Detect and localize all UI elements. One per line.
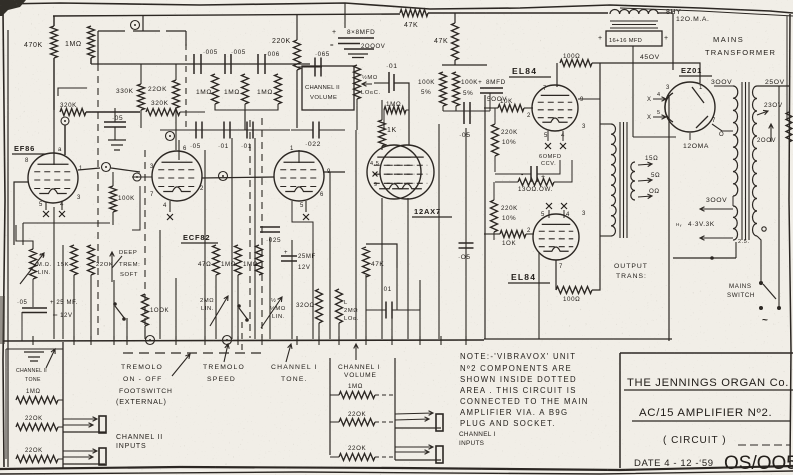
resistor 15K [71, 245, 78, 275]
pin 9 V3 [327, 169, 331, 175]
border left edge [3, 12, 5, 467]
mains transformer core [742, 82, 749, 240]
resistor 47K rail [400, 10, 428, 17]
wire EF86 pin5 lead [45, 202, 47, 210]
wire bus tick 16 [465, 336, 467, 345]
pin 3 ECF82 [150, 164, 154, 170]
wire 100R bottom to transformer [592, 235, 600, 290]
label 200V [757, 138, 776, 144]
label plus 25MF [50, 300, 78, 306]
label 220K cluster [148, 86, 167, 93]
wire 220K chIa left [330, 421, 339, 423]
wire vertical drop 26 [438, 124, 440, 339]
label AC tilde [762, 315, 768, 326]
pin 1 EF86 [79, 166, 83, 172]
output transformer secondary coil [631, 162, 635, 200]
wire 220K top lead [175, 64, 177, 80]
resistor 47K dropper [452, 23, 459, 60]
label EL84 top underline [509, 76, 551, 78]
label .05 screen cap [112, 115, 123, 122]
label 8HY [666, 9, 681, 16]
label .065 [315, 51, 330, 58]
label plus compo [541, 174, 546, 181]
label 1M chI [348, 383, 363, 390]
label 250V [765, 79, 785, 86]
wire vertical drop 2 [73, 275, 75, 339]
wire vertical drop 19 [338, 323, 340, 339]
wire main earth bus [3, 340, 484, 341]
wire ECF82 top lead [178, 140, 180, 160]
label .05 lower [458, 254, 471, 261]
resistor 220K channel I a [339, 419, 375, 426]
label 5 percent b [463, 90, 473, 97]
capacitor .05 coupling lower [459, 243, 474, 248]
wire output box bottom [484, 338, 672, 340]
wire 130R left [495, 181, 518, 183]
pin 4 EL84 top [561, 133, 565, 139]
label MAINS [713, 35, 744, 44]
resistor 220K coupling cluster [173, 80, 180, 108]
label .005 second [231, 49, 246, 56]
wire choke right to EZ01 [658, 12, 673, 14]
capacitor 8+8MFD plates [338, 38, 374, 49]
ground screen decoupler [108, 140, 126, 150]
jack channel I input 1 [436, 414, 443, 431]
wire chI volume left [329, 358, 331, 455]
wire dashed link down [241, 322, 243, 352]
wire cap box drop [632, 46, 634, 137]
wire EF86 cathode left [14, 182, 28, 245]
wire bus tick 7 [237, 336, 239, 345]
wire EL84 bottom pin5 [548, 210, 550, 218]
wire dashed vibravox inner b [249, 120, 251, 338]
label 120MA [676, 16, 710, 23]
wire 1M bottoms join [215, 104, 278, 110]
label TONE chI [281, 376, 308, 383]
wire 220K bottom [175, 108, 177, 150]
label half meg lin 1 [40, 252, 45, 259]
mains heater winding [733, 206, 738, 240]
speaker tap 5 ohm [638, 178, 652, 183]
pin 45 12AX7 [370, 161, 379, 167]
wire 220K a right [58, 426, 63, 428]
label .01 top [386, 63, 398, 70]
resistor 47K channel I [363, 247, 370, 277]
wire EL84 top pin9 to rail [578, 98, 600, 100]
wire 1M chI right dashes [375, 394, 395, 396]
label 320K [60, 102, 77, 109]
wire grid feed left [374, 82, 389, 84]
wire jog horizontal [98, 30, 186, 32]
wire .022 right [319, 129, 345, 131]
wire EF86 anode top lead [53, 135, 55, 165]
node D on rail [131, 21, 140, 30]
label SWITCH [727, 292, 755, 299]
wire EZ01 bottom drop [689, 133, 691, 140]
wire coupling row [91, 63, 310, 65]
wire 100K top lead [112, 172, 114, 186]
wire 10K bottom left [484, 233, 500, 235]
capacitor .05 tremolo plates [22, 308, 47, 313]
label 230V [764, 102, 783, 109]
label TONE small [25, 377, 41, 383]
title AC15 [639, 407, 772, 419]
resistor 130R cathode [518, 179, 554, 186]
label 25MF second [298, 254, 316, 260]
label 5 percent a [421, 89, 431, 96]
label 100K tremolo [150, 308, 169, 314]
wire 330K top lead [140, 64, 142, 84]
wire anode node to right [111, 168, 140, 172]
resistor 220K channel II a [16, 424, 58, 431]
label CHANNEL I vol [338, 364, 380, 371]
label 1M grid b [224, 89, 240, 96]
pin 5 EL84 top [544, 133, 548, 139]
label half-meg pot [362, 74, 378, 81]
wire .05 lower up [465, 230, 467, 243]
resistor 10K grid bottom [500, 231, 526, 238]
wire vertical drop 8 [175, 278, 177, 339]
wire transformer secondary top [714, 85, 733, 87]
label FOOTSWITCH [119, 388, 173, 395]
wire jog right drop [185, 31, 187, 46]
label 15 ohm [645, 155, 658, 162]
pointer footswitch [172, 354, 190, 376]
pin labels 12AX7 right [374, 182, 378, 188]
resistor 470K [51, 26, 58, 58]
label 220K chII a [25, 416, 43, 422]
label 2M log [344, 308, 358, 314]
resistor 1K [379, 120, 386, 146]
pointer channel I volume [354, 344, 359, 360]
pin 2 ECF82 [200, 186, 204, 192]
wire vertical drop 7 [159, 230, 161, 339]
wire B+ node phase [442, 64, 487, 66]
output transformer core [620, 122, 627, 238]
label 47K dropper [434, 38, 448, 45]
wire .065 right to box [302, 66, 322, 68]
pin 2 EL84 top [527, 113, 531, 119]
wire 47K dropper top [454, 13, 456, 23]
wire primary bottom to switch [757, 236, 761, 281]
label 8MFD [486, 79, 506, 86]
pin X5 EZ01 [647, 115, 652, 121]
capacitor .05 coupling [464, 102, 470, 124]
tube EL84 bottom [533, 214, 579, 260]
wire 320K right lead [86, 111, 140, 113]
label 100K plate a [418, 79, 435, 86]
wire V3 pin5 lead [305, 201, 307, 212]
wire EF86 bottom return [23, 222, 110, 224]
border left edge inner [7, 30, 9, 467]
label .01 row b [241, 143, 252, 150]
label plus right [664, 35, 669, 42]
label .05 row [190, 143, 201, 150]
wire pot1 top bracket [16, 225, 33, 249]
pin X4 EZ01 [647, 97, 652, 103]
label MQ LIN 1b [38, 270, 51, 276]
label 220K tremolo [96, 262, 113, 268]
switch mains arm [763, 284, 776, 299]
switch tremolo dots [113, 302, 126, 321]
wire .05 cap top lead [114, 108, 116, 122]
resistor dropper 250V [786, 112, 792, 142]
note text line 5 [460, 397, 589, 406]
wire chI volume right [394, 358, 396, 460]
capacitor .065 [315, 58, 321, 77]
pin 5 EF86 [39, 202, 43, 208]
label TREMOLO onoff [121, 364, 163, 371]
jack II-2 sleeve line [63, 463, 105, 465]
label 6.3V heater [688, 221, 715, 228]
label 10pc bottom [502, 215, 516, 222]
resistor 100R grid stopper top [560, 60, 592, 67]
wire vertical drop 6 [144, 326, 146, 339]
label 220K chI b [348, 445, 366, 452]
jack II-2 tip line [63, 449, 97, 454]
label 130R [518, 186, 553, 193]
wire vertical drop 10 [215, 275, 217, 339]
label 1M tone [386, 101, 401, 108]
label 1M tone chII [26, 389, 41, 395]
capacitor .005 second [225, 54, 231, 74]
jack II-1 ring line [63, 423, 93, 428]
label 12AX7 underline [412, 216, 452, 218]
wire .022 feed [291, 129, 313, 131]
pointer channel I tone [286, 344, 292, 362]
wiper arrow volume pot [362, 82, 372, 87]
capacitor 16+16MFD box [606, 31, 662, 46]
potentiometer 2M log [336, 289, 343, 323]
jack I-1 ring line [395, 417, 429, 422]
note channel I inputs b [459, 440, 484, 447]
heater X V3 [303, 214, 309, 220]
label 2.5 fuse [738, 239, 750, 245]
pin 7 ECF82 [150, 192, 154, 198]
tube 12AX7 left half [367, 145, 421, 199]
pin 1 V3 [290, 146, 294, 152]
note channel I inputs a [459, 431, 496, 438]
wire .01 chan I left [366, 309, 386, 311]
resistor 1M grid c [275, 74, 282, 104]
wire vertical drop 22 [381, 198, 383, 339]
wire 10K left [484, 107, 498, 109]
tube V3 triode [274, 151, 324, 201]
wire 1M tone right [406, 109, 409, 111]
output transformer primary coil [611, 124, 616, 236]
wire 1M chI left [330, 394, 339, 396]
wire 100K a bottom [442, 106, 444, 111]
jack I-2 sleeve line [395, 459, 441, 461]
note text line 7 [460, 419, 556, 428]
mains transformer HT secondary [733, 86, 738, 196]
wire bus tick 6 [204, 336, 206, 345]
resistor 1M tremolo b [256, 245, 263, 275]
note text line 1 [460, 352, 576, 361]
resistor 220K tremolo [88, 245, 95, 275]
wire compo right [537, 160, 560, 174]
wire 100K bottom lead [112, 212, 114, 225]
wire 1M mid drop [244, 104, 246, 130]
wire EL84 bottom anode riser [555, 260, 557, 290]
label Htr [676, 222, 682, 227]
wire bus tick 0 [32, 336, 34, 345]
label 47K channel I [371, 261, 384, 268]
label 320K second [151, 100, 169, 107]
pin 7 EL84 top [543, 86, 547, 92]
label minus 8x8 [330, 43, 334, 49]
mains transformer primary [752, 86, 757, 236]
title date [634, 458, 714, 469]
wire 47K dropper bottom [454, 60, 456, 65]
wire bus tick 15 [440, 336, 442, 345]
title underline 2 [632, 420, 790, 422]
pin a EF86 [58, 147, 62, 153]
potentiometer half-meg lin wiper [20, 253, 44, 284]
wire dashed vibravox inner a [144, 150, 146, 338]
resistor 100K plate b [453, 72, 460, 106]
capacitor .05 row [196, 122, 202, 139]
label 12AX7 [414, 207, 441, 216]
wire pot1 bottom [32, 279, 34, 307]
wire vertical drop 1 [62, 245, 64, 339]
note text line 6 [460, 408, 568, 417]
wire vertical drop 18 [329, 172, 331, 339]
node bus tremolo A [146, 336, 155, 345]
label CHANNEL I TONE [271, 364, 318, 371]
wire vertical drop 9 [204, 150, 206, 339]
heater arrow 5 EZ01 [653, 115, 666, 120]
wire caps row horizontal [160, 129, 290, 131]
resistor 1M grid b [242, 74, 249, 104]
wire bus tick 13 [391, 336, 393, 345]
wire bus tick 8 [261, 336, 263, 345]
wire vertical drop 20 [355, 130, 357, 339]
wire vertical drop 16 [312, 240, 314, 339]
resistor 1M first [88, 26, 95, 58]
wire .065 left [297, 66, 315, 68]
label 47K tremolo [198, 261, 211, 268]
resistor 10K grid top [498, 105, 524, 112]
heater arrow 4 EZ01 [653, 97, 666, 102]
resistor 220K bias top [492, 124, 499, 156]
wire dashed vibravox right [261, 118, 263, 338]
wire 1M bottom lead [90, 58, 92, 64]
label 470K [24, 42, 43, 49]
wire mains live drop [778, 86, 780, 308]
potentiometer channel II volume [354, 65, 361, 99]
resistor 1M channel I [339, 392, 375, 399]
capacitor .05 screen [104, 122, 126, 127]
label minus compo [521, 172, 524, 179]
pin 5 V3 [300, 203, 304, 209]
pin 3 EZ01 [666, 85, 670, 91]
label 12V second [298, 265, 310, 271]
box channel II volume [302, 66, 354, 110]
wire vertical drop 11 [231, 138, 233, 339]
jack II-1 sleeve line [63, 432, 105, 433]
label 300V bottom [706, 197, 727, 204]
wire jog left drop [97, 31, 99, 64]
label 4M LIN b [272, 314, 285, 320]
wire bus tick 9 [296, 336, 298, 345]
border bottom edge second stroke [0, 471, 793, 474]
wire heater drop [735, 242, 737, 258]
resistor 1M tone [384, 107, 406, 114]
wire bus tick 10 [318, 336, 320, 345]
resistor 47K tremolo [213, 245, 220, 275]
wire EL84 top pin5 lead [547, 131, 549, 141]
label 220K bias bottom [501, 205, 518, 212]
resistor 1M tremolo a [235, 245, 242, 275]
label VOLUME chI [344, 372, 377, 379]
wire 220K bottom lead [296, 70, 298, 128]
resistor 220K top [294, 40, 301, 70]
label INPUTS chII [116, 443, 146, 450]
label 100K plate b [461, 79, 482, 86]
title OS005 [724, 453, 793, 474]
wire vertical drop 12 [237, 275, 239, 339]
tube 12AX7 right half [380, 145, 434, 199]
resistor 320K second [146, 109, 180, 116]
wire 1K top [381, 100, 383, 120]
title underline 1 [624, 389, 793, 391]
label TREMOLO speed [203, 364, 245, 371]
pin 4 EL84 bottom [566, 212, 570, 218]
wire 220K chIa right [375, 421, 395, 423]
border left edge smudge [0, 296, 5, 344]
resistor 220K channel II b [16, 456, 58, 463]
capacitor tone marks [24, 352, 44, 361]
pin 3 EL84 bottom [582, 211, 586, 217]
capacitor .025 tremolo [260, 227, 280, 232]
label ECF82 [183, 233, 210, 242]
label ON-OFF [123, 376, 162, 383]
wire V3 grid top [298, 150, 300, 163]
pin 3 EF86 [77, 195, 81, 201]
wire 220K b right [58, 458, 63, 460]
wire 220K chIb left [330, 456, 339, 458]
wire EF86 anode out [78, 168, 100, 170]
label OUTPUT [614, 263, 648, 270]
resistor 100R grid stopper bottom [556, 287, 592, 294]
potentiometer half-meg lin element [30, 249, 37, 279]
wire vertical drop 14 [269, 237, 271, 339]
wire grid feed right [394, 83, 409, 145]
wire ECF82 pin4 lead [169, 201, 171, 212]
label 10pc top [502, 139, 516, 146]
heater lead top [700, 207, 733, 212]
heater X EL84 bottom a [546, 203, 552, 209]
wire ECF82 left stub [132, 176, 152, 178]
label EF86 underline [12, 153, 45, 155]
wire node1 to EF86 [64, 125, 66, 155]
junction dot heater line [710, 256, 714, 260]
label plus left [598, 35, 603, 42]
resistor 100K EF86 anode load [110, 186, 117, 212]
pin 3 EL84 top [582, 124, 586, 130]
pin 1 EZ01 [699, 85, 703, 91]
label 100K [118, 195, 135, 202]
wire dashed grid box [185, 44, 187, 128]
wire 1M tone right [58, 399, 63, 401]
capacitor 25MF second plates [281, 256, 297, 261]
pin 9 EL84 top [580, 97, 584, 103]
heater X 12AX7 [373, 172, 378, 177]
resistor 100K plate a [440, 72, 447, 106]
wire vertical drop 3 [90, 275, 92, 339]
wire below EF86 pin drop [53, 207, 55, 245]
